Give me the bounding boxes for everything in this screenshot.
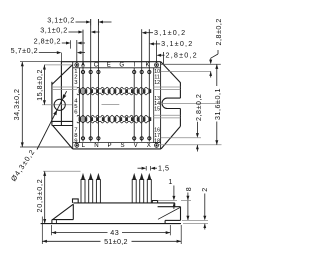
pin numbers right column 10-18 xyxy=(154,69,160,144)
dim 3,1 rowB line xyxy=(153,43,160,45)
dim 2 ext top xyxy=(182,219,208,221)
dim 15,8 ext top xyxy=(44,64,72,66)
svg-text:S: S xyxy=(121,142,125,149)
row1 ext tick col3 xyxy=(90,19,92,25)
dim 8 arrow bottom xyxy=(186,216,189,221)
svg-text:1,5: 1,5 xyxy=(158,164,170,173)
dim 20,3 ext top xyxy=(43,170,81,172)
svg-text:3,1±0,2: 3,1±0,2 xyxy=(161,39,193,48)
dim 43 arrow R xyxy=(166,231,171,234)
dim 2,8 rowC line xyxy=(160,54,164,56)
dim 43 arrow L xyxy=(52,231,57,234)
side view: right step down xyxy=(164,220,166,223)
dim 20,3 arrow top xyxy=(43,171,46,176)
dim 2,8 row3 tick xyxy=(70,40,72,48)
band1 edge line right 2 xyxy=(153,89,180,91)
side view pin 6 xyxy=(147,180,151,203)
side view: right underside xyxy=(165,219,180,221)
pin circle bottom 3 xyxy=(97,137,100,140)
mounting flange bottom edge xyxy=(52,120,73,122)
dim 2,8 row3 arrow R xyxy=(77,42,82,45)
dim 2 ext bottom xyxy=(183,223,208,225)
dim 8 ext top xyxy=(181,200,191,202)
hole diameter arrow upper xyxy=(62,94,66,99)
svg-text:43: 43 xyxy=(110,228,119,237)
side view: right wall step xyxy=(174,203,176,207)
dim 43 ext left xyxy=(51,225,53,235)
pin column line 4 xyxy=(97,19,99,142)
side view: wedge right face xyxy=(72,204,74,219)
corner hole bottom-left xyxy=(75,143,79,147)
side view: right wall top xyxy=(158,206,181,208)
band1 edge line left xyxy=(52,86,77,88)
dim 51 ext left xyxy=(41,217,43,245)
dim 2,8 top-right arrow2 xyxy=(209,72,212,76)
dim 2 line top xyxy=(204,194,206,217)
dim 34,3 arrow top xyxy=(21,62,24,67)
svg-text:18: 18 xyxy=(154,138,160,144)
dim 1,5 arrow R xyxy=(151,167,156,170)
svg-text:15: 15 xyxy=(154,107,160,113)
dim 1,5 lead L xyxy=(138,167,142,169)
corner hole top-right xyxy=(155,63,159,67)
dim 51 line left xyxy=(42,240,100,242)
svg-text:3,1±0,2: 3,1±0,2 xyxy=(47,16,74,25)
dim 43 line left xyxy=(52,232,108,234)
dim 31,6 line top xyxy=(216,64,218,86)
corner hole bottom-right xyxy=(155,143,159,147)
svg-text:5,7±0,2: 5,7±0,2 xyxy=(11,46,38,55)
pin circle bottom 6 xyxy=(148,137,151,140)
svg-text:P: P xyxy=(107,142,111,149)
module top view: right edge slot xyxy=(162,98,180,108)
module top view: bottom-left chamfer xyxy=(53,126,73,149)
dim 2,8 row3 tail xyxy=(81,42,85,44)
svg-text:3,1±0,2: 3,1±0,2 xyxy=(154,28,186,37)
terminal letters top row xyxy=(81,62,150,69)
ext mid-right pin row xyxy=(161,137,201,139)
svg-text:31,6±0,1: 31,6±0,1 xyxy=(213,88,222,120)
dim 15,8 line xyxy=(43,65,45,105)
ext top-right corner row xyxy=(161,63,221,65)
horizontal centerline right xyxy=(162,102,220,104)
svg-text:2,8±0,2: 2,8±0,2 xyxy=(34,37,61,46)
side view: body top xyxy=(73,202,175,204)
dim 2,8 row3 line xyxy=(62,42,66,44)
svg-text:15,8±0,2: 15,8±0,2 xyxy=(35,69,44,101)
pin circle top 1 xyxy=(81,70,84,73)
hole diameter leader xyxy=(37,91,67,149)
hole diameter arrow lower xyxy=(53,110,57,115)
dim 8 arrow top xyxy=(186,196,189,201)
dim 20,3 line xyxy=(44,171,46,223)
dim 8 line xyxy=(187,193,189,221)
module top view: right edge lower xyxy=(179,109,181,127)
dim 3,1 row1 line xyxy=(76,21,87,23)
substrate band 1 xyxy=(77,87,150,89)
pin column line 7 xyxy=(148,29,150,141)
pin circle top 3 xyxy=(97,70,100,73)
inner frame top line xyxy=(73,67,161,69)
mounting flange chamfer xyxy=(52,65,73,85)
dim 1,5 lead R xyxy=(154,167,157,169)
chamfer ext for dim xyxy=(162,52,164,65)
side view pin 1 xyxy=(81,180,85,203)
dim 2,8 top-right lead xyxy=(217,50,219,54)
side view pin 5 xyxy=(140,180,144,203)
side view: right bump xyxy=(152,201,157,203)
dim 1 arrow up xyxy=(173,203,176,207)
svg-text:3,1±0,2: 3,1±0,2 xyxy=(40,26,67,35)
pin circle bottom 4 xyxy=(133,137,136,140)
mounting flange left edge xyxy=(51,82,53,126)
dim 1 line top xyxy=(173,186,175,197)
dim 20,3 arrow bottom xyxy=(43,219,46,224)
row1 ext tick col4 xyxy=(97,19,99,25)
svg-text:2,8±0,2: 2,8±0,2 xyxy=(214,18,223,45)
svg-text:N: N xyxy=(94,142,98,149)
dim 5,7 row4 line xyxy=(39,52,57,54)
side view: left bump xyxy=(73,199,79,203)
dim 34,3 ext top xyxy=(20,61,61,63)
dim 1,5 ext left xyxy=(145,166,147,171)
inner field left line xyxy=(72,62,74,149)
terminal letters bottom row xyxy=(82,142,151,149)
dim 51 arrow R xyxy=(177,240,182,243)
ext top-right frame row xyxy=(161,71,211,73)
svg-text:K: K xyxy=(145,62,149,69)
dim 1 line bottom xyxy=(173,203,175,209)
dim 3,1 row2 tail xyxy=(95,31,100,33)
pin circle top 5 xyxy=(140,70,143,73)
dim 2,8 mid arrow up tail xyxy=(196,145,198,152)
svg-text:G: G xyxy=(119,62,124,69)
svg-text:C: C xyxy=(94,62,99,69)
pin circle top 6 xyxy=(148,70,151,73)
pin column line 2 xyxy=(82,30,84,142)
dim 2,8 rowC arrow xyxy=(157,54,162,57)
inner frame bottom line xyxy=(73,142,161,144)
svg-text:I: I xyxy=(134,62,136,69)
dim 15,8 arrow top xyxy=(43,65,46,70)
pin column line 5 xyxy=(133,68,135,142)
inner field right line xyxy=(160,62,162,149)
dim 3,1 row1 tail xyxy=(102,21,111,23)
dim 2,8 mid arrow down xyxy=(196,133,199,138)
side view: baseplate top xyxy=(52,219,73,221)
dim 2 arrow up xyxy=(203,224,206,228)
corner hole top-left xyxy=(75,63,79,67)
dim 1 ext xyxy=(158,200,177,202)
svg-text:1: 1 xyxy=(168,177,173,186)
svg-text:51±0,2: 51±0,2 xyxy=(104,237,128,246)
left edge ext up xyxy=(60,53,62,62)
dim 2,8 top-right arrow2 tail xyxy=(210,72,212,78)
side view pin 3 xyxy=(96,180,100,203)
dim 51 line right xyxy=(132,240,182,242)
band2 edge line right 2 xyxy=(153,117,180,119)
svg-text:X: X xyxy=(147,142,151,149)
band1 edge line left 2 xyxy=(52,89,77,91)
dim 1 arrow down xyxy=(172,196,175,201)
dim 2,8 mid line xyxy=(196,122,198,134)
dim 1,5 ext right xyxy=(150,166,152,171)
pin column line 3 xyxy=(90,19,92,142)
dim 2,8 top-right arrow xyxy=(209,60,212,65)
corner column ext right xyxy=(156,41,158,63)
dim 2,8 mid arrow up xyxy=(196,145,199,149)
svg-text:E: E xyxy=(107,62,111,69)
pin circle bottom 1 xyxy=(81,137,84,140)
mounting flange bottom edge 2 xyxy=(52,125,73,127)
pin circle top 2 xyxy=(89,70,92,73)
dim 3,1 row1 arrow R xyxy=(98,21,103,24)
module top view: bottom edge xyxy=(73,148,161,150)
horizontal centerline left xyxy=(42,104,73,106)
svg-text:2: 2 xyxy=(200,187,209,192)
dim 1,5 arrow L xyxy=(142,167,147,170)
dim 31,6 ext bottom xyxy=(158,144,221,146)
svg-text:8: 8 xyxy=(184,187,193,192)
inner frame right line xyxy=(153,68,155,143)
side view: baseplate left divider xyxy=(55,220,57,224)
horizontal centerline mid xyxy=(102,104,120,106)
dim 5,7 row4 arrow L xyxy=(57,51,62,54)
svg-text:2,8±0,2: 2,8±0,2 xyxy=(194,94,203,121)
band2 edge line right xyxy=(153,114,180,116)
side view: right diagonal mark xyxy=(158,208,180,220)
dim 34,3 ext bottom xyxy=(20,146,72,148)
side view: right wall right edge xyxy=(180,207,182,221)
pin circle top 4 xyxy=(133,70,136,73)
dim 3,1 row1 arrow L xyxy=(86,21,91,24)
pin column line 6 xyxy=(141,29,143,141)
svg-text:34,3±0,2: 34,3±0,2 xyxy=(12,88,21,120)
svg-text:9: 9 xyxy=(74,138,77,144)
dim 5,7 row4 arrow R xyxy=(77,51,82,54)
dim 2 arrow down xyxy=(203,216,206,221)
pin circle bottom 5 xyxy=(140,137,143,140)
dim 5,7 row4 tail xyxy=(81,52,85,54)
dim 15,8 arrow bottom xyxy=(43,100,46,105)
dim 31,6 arrow top xyxy=(215,64,218,69)
dim 34,3 line xyxy=(21,62,23,147)
dim 3,1 row2 line xyxy=(69,31,79,33)
svg-text:12: 12 xyxy=(154,80,160,86)
side view: flange wedge diagonal xyxy=(53,204,74,219)
dim 3,1 rowA line xyxy=(146,32,154,34)
dim 43 ext right xyxy=(169,225,171,235)
dim 51 arrow L xyxy=(42,240,47,243)
dim 31,6 arrow bottom xyxy=(215,140,218,145)
side view pin 4 xyxy=(132,180,136,203)
svg-text:2,8±0,2: 2,8±0,2 xyxy=(166,50,198,59)
side view pin 2 xyxy=(89,180,93,203)
dim 3,1 rowA arrow xyxy=(142,31,147,34)
dim 43 line right xyxy=(122,232,170,234)
dim 2,8 row3 arrow L xyxy=(66,42,71,45)
dim 3,1 row2 arrow R xyxy=(91,31,96,34)
dim 3,1 row2 arrow L xyxy=(78,31,83,34)
module top view: top-right chamfer xyxy=(161,62,181,83)
module top view: right edge upper xyxy=(179,82,181,98)
module top view: bottom-right chamfer xyxy=(161,126,180,149)
band1 edge line right xyxy=(153,86,180,88)
corner column ext left xyxy=(76,40,78,63)
module top view: left edge xyxy=(60,62,62,126)
module top view: top edge xyxy=(61,61,160,63)
dim 3,1 rowB arrow xyxy=(149,42,154,45)
dim 2 arrow up tail xyxy=(204,224,206,230)
svg-text:20,3±0,2: 20,3±0,2 xyxy=(35,179,44,213)
side view: baseplate bottom line xyxy=(41,223,181,225)
mounting hole circle xyxy=(54,99,65,110)
pin numbers left column 1-9 xyxy=(74,69,78,144)
inner frame left line xyxy=(78,68,80,143)
dim 31,6 line bottom xyxy=(216,122,218,145)
side view: baseplate left face xyxy=(51,220,53,224)
dim 34,3 arrow bottom xyxy=(21,142,24,147)
dim 51 ext right xyxy=(180,225,182,244)
substrate band 2 xyxy=(77,115,150,117)
pin circle bottom 2 xyxy=(89,137,92,140)
